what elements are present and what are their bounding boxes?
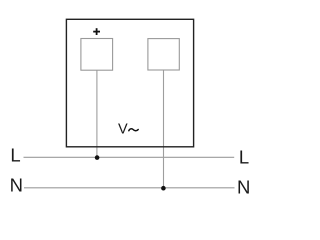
wire L line bbox=[24, 156, 235, 158]
enclosure box U1 bbox=[66, 19, 193, 147]
wire from left square to L line bbox=[96, 70, 98, 157]
svg-text:N: N bbox=[10, 175, 23, 196]
svg-text:N: N bbox=[237, 177, 250, 198]
node N junction dot bbox=[161, 186, 166, 191]
plus polarity mark bbox=[93, 28, 100, 35]
component square right bbox=[148, 39, 179, 70]
svg-text:L: L bbox=[239, 147, 249, 168]
svg-text:V: V bbox=[118, 121, 128, 137]
node L junction dot bbox=[95, 155, 100, 160]
component square left (with + terminal) bbox=[81, 39, 113, 71]
wire from right square to N line bbox=[163, 70, 165, 188]
wire N line bbox=[24, 187, 235, 189]
svg-text:L: L bbox=[10, 144, 20, 165]
